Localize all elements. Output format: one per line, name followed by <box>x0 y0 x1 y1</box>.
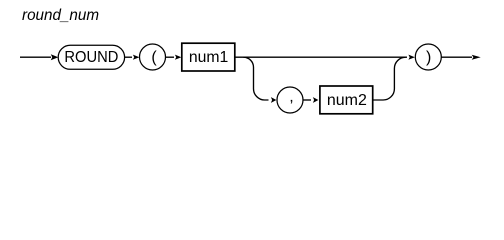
wire: main rail num1 to ) <box>235 56 407 58</box>
wire: branch down to optional row <box>243 57 268 100</box>
svg-text:num2: num2 <box>327 92 367 109</box>
svg-text:(: ( <box>151 49 157 66</box>
svg-text:,: , <box>289 89 293 106</box>
arrowhead into num2 <box>313 97 319 103</box>
arrowhead into , <box>271 97 277 103</box>
wire: num2 back up to main rail <box>373 57 406 100</box>
wire: ( to num1 <box>166 56 175 58</box>
wire: exit lead-out <box>441 56 472 58</box>
arrowhead exit <box>472 55 481 60</box>
variable num2 box <box>320 86 373 114</box>
terminal ) circle <box>415 44 441 70</box>
arrowhead into ROUND <box>51 54 59 60</box>
arrowhead into ( <box>133 55 140 60</box>
svg-text:): ) <box>426 49 431 66</box>
wire: , to num2 <box>303 99 311 101</box>
svg-text:round_num: round_num <box>22 7 99 24</box>
wire: start lead-in <box>20 56 51 58</box>
terminal ( circle <box>140 44 166 70</box>
arrowhead into ) <box>408 55 415 60</box>
terminal , circle <box>277 87 303 113</box>
wire: ROUND to ( <box>125 56 132 58</box>
arrowhead into num1 <box>175 55 182 60</box>
keyword ROUND stadium <box>58 45 124 69</box>
svg-text:ROUND: ROUND <box>64 49 118 66</box>
svg-text:num1: num1 <box>189 49 229 66</box>
variable num1 box <box>182 43 235 71</box>
